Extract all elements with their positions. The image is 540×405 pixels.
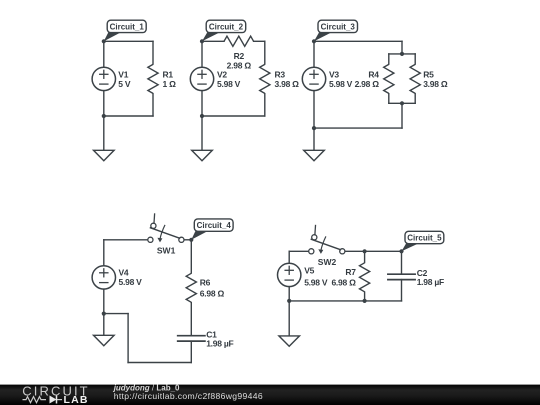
svg-text:5 V: 5 V bbox=[118, 79, 131, 89]
svg-text:6.98 Ω: 6.98 Ω bbox=[331, 277, 356, 287]
svg-text:3.98 Ω: 3.98 Ω bbox=[275, 79, 300, 89]
svg-text:V5: V5 bbox=[304, 266, 314, 276]
svg-text:5.98 V: 5.98 V bbox=[217, 79, 241, 89]
svg-text:2.98 Ω: 2.98 Ω bbox=[227, 60, 252, 70]
svg-text:5.98 V: 5.98 V bbox=[304, 277, 328, 287]
svg-text:Circuit_4: Circuit_4 bbox=[197, 221, 232, 230]
svg-text:SW2: SW2 bbox=[318, 257, 337, 267]
svg-text:Circuit_5: Circuit_5 bbox=[407, 234, 442, 243]
svg-text:R7: R7 bbox=[345, 267, 356, 277]
svg-text:5.98 V: 5.98 V bbox=[329, 79, 353, 89]
svg-text:Circuit_1: Circuit_1 bbox=[110, 22, 145, 31]
svg-text:V4: V4 bbox=[119, 267, 129, 277]
svg-text:1 Ω: 1 Ω bbox=[163, 79, 177, 89]
svg-text:http://circuitlab.com/c2f886wg: http://circuitlab.com/c2f886wg99446 bbox=[114, 391, 263, 401]
svg-text:R6: R6 bbox=[200, 277, 211, 287]
svg-text:SW1: SW1 bbox=[157, 245, 176, 255]
svg-text:1.98 µF: 1.98 µF bbox=[417, 277, 444, 287]
svg-text:5.98 V: 5.98 V bbox=[119, 277, 143, 287]
svg-text:Circuit_2: Circuit_2 bbox=[209, 22, 244, 31]
svg-text:6.98 Ω: 6.98 Ω bbox=[200, 289, 225, 299]
svg-text:LAB: LAB bbox=[64, 394, 89, 405]
svg-text:1.98 µF: 1.98 µF bbox=[206, 339, 233, 349]
svg-text:2.98 Ω: 2.98 Ω bbox=[355, 79, 380, 89]
svg-text:Circuit_3: Circuit_3 bbox=[321, 22, 356, 31]
svg-text:3.98 Ω: 3.98 Ω bbox=[423, 79, 448, 89]
